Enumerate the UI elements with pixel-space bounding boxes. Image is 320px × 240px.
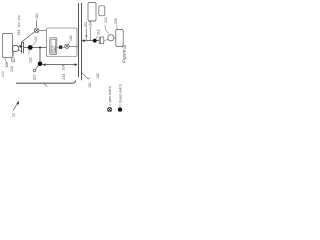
svg-text:180: 180: [88, 82, 92, 88]
wall line right: [81, 3, 83, 80]
wire to wall with arrow: [42, 64, 75, 66]
svg-text:102: 102: [5, 62, 9, 68]
linkage pivot: [33, 69, 36, 72]
cone upper wire: [18, 45, 21, 47]
node closed switch S1: [28, 45, 33, 50]
svg-text:140A: 140A: [53, 46, 57, 52]
wire gauge to rect: [114, 37, 116, 39]
open switch S3: [65, 44, 69, 48]
valve V1 plate 1: [21, 42, 23, 53]
svg-text:202: 202: [104, 17, 108, 23]
open switch S2: [34, 28, 39, 33]
pipe label tick: [44, 83, 47, 86]
wire right line: [84, 40, 99, 42]
svg-text:154: 154: [17, 30, 21, 36]
wire S3 to wall: [69, 46, 78, 48]
svg-text:Figure 7: Figure 7: [122, 45, 128, 63]
svg-text:180: 180: [35, 13, 39, 19]
svg-text:110: 110: [12, 57, 16, 62]
wire from S2 to box: [39, 29, 47, 31]
linkage arm: [35, 65, 38, 69]
module M1: [50, 38, 57, 55]
legend closed switch symbol: [118, 107, 122, 111]
pipe line bottom: [16, 80, 76, 83]
diagonal wire to switch S2: [21, 32, 35, 43]
cylinder rect R3: [88, 3, 96, 22]
svg-text:140: 140: [69, 35, 73, 41]
gauge circle G1: [108, 35, 114, 41]
svg-text:164: 164: [88, 21, 92, 27]
squiggle lead actuator: [116, 25, 117, 30]
controller box U1: [47, 28, 78, 57]
piston rect: [100, 37, 103, 44]
svg-text:132: 132: [28, 57, 32, 63]
svg-text:130: 130: [34, 36, 38, 42]
wire lead B: [90, 27, 92, 41]
small rect R4: [99, 6, 105, 16]
label 140 leader: [68, 42, 70, 45]
svg-text:234: 234: [62, 74, 66, 80]
label 132 leader: [28, 50, 31, 54]
label 130 leader: [32, 42, 36, 46]
wire down from junction: [39, 48, 41, 63]
tank label leader: [5, 58, 7, 65]
valve V1 top cap: [21, 41, 23, 43]
leader hook: [88, 77, 89, 79]
svg-text:100: 100: [1, 71, 5, 77]
svg-text:204: 204: [62, 65, 66, 71]
wall line left: [78, 3, 80, 77]
svg-text:= open switch: = open switch: [108, 86, 112, 106]
wire to gauge: [104, 39, 108, 42]
actuator rect R2: [116, 30, 123, 47]
arrowhead into valve: [20, 45, 23, 48]
arrowhead at dot: [43, 63, 46, 66]
node square J1: [59, 46, 62, 49]
squiggle lead gauge: [105, 25, 110, 34]
svg-text:152: 152: [17, 22, 21, 27]
svg-text:150: 150: [17, 15, 21, 20]
wire in box: [57, 46, 65, 48]
valve V1 plate 2: [23, 42, 25, 53]
tank stub wire: [11, 58, 13, 62]
pump lower squiggle: [12, 52, 15, 57]
pump P1: [12, 45, 18, 51]
label 12 arrow: [13, 103, 18, 110]
label 212 leader: [96, 36, 98, 39]
svg-text:12: 12: [12, 113, 16, 117]
wire lead A: [85, 28, 87, 41]
cone lower wire: [18, 50, 21, 51]
wire main line left: [24, 47, 47, 49]
svg-text:104: 104: [10, 66, 14, 72]
label 12 arrowhead: [16, 101, 19, 105]
svg-text:212: 212: [96, 29, 100, 35]
legend open switch symbol: [107, 107, 111, 111]
tank T1: [3, 34, 13, 58]
junction node: [39, 47, 41, 49]
node closed switch S4: [38, 62, 43, 67]
leader arrow right of wall: [82, 73, 88, 79]
wire lead up from S2: [36, 20, 38, 28]
svg-text:220: 220: [33, 74, 37, 80]
svg-text:206: 206: [114, 18, 118, 24]
arrowhead into wall right: [82, 39, 85, 42]
svg-text:= closed switch: = closed switch: [118, 84, 122, 106]
piston bar: [98, 37, 100, 44]
node closed switch S5: [93, 39, 97, 43]
svg-text:142: 142: [96, 73, 100, 79]
svg-text:162: 162: [84, 22, 88, 28]
arrowhead at wall: [75, 63, 78, 66]
